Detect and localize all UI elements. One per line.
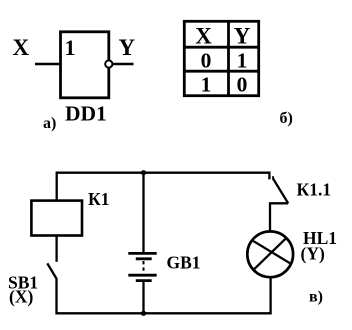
svg-text:X: X bbox=[13, 35, 30, 60]
svg-text:1: 1 bbox=[65, 35, 76, 60]
svg-text:(Y): (Y) bbox=[301, 244, 325, 264]
svg-text:1: 1 bbox=[201, 73, 212, 97]
svg-text:К1.1: К1.1 bbox=[297, 180, 332, 200]
svg-text:0: 0 bbox=[237, 73, 248, 97]
svg-text:1: 1 bbox=[237, 48, 248, 72]
svg-text:0: 0 bbox=[201, 48, 212, 72]
svg-text:б): б) bbox=[280, 110, 293, 127]
svg-text:а): а) bbox=[43, 115, 56, 132]
svg-text:в): в) bbox=[309, 288, 323, 305]
svg-text:Y: Y bbox=[234, 24, 251, 49]
svg-text:Y: Y bbox=[119, 35, 136, 60]
svg-text:DD1: DD1 bbox=[65, 102, 107, 126]
svg-text:(X): (X) bbox=[9, 287, 33, 307]
svg-text:К1: К1 bbox=[88, 189, 109, 209]
svg-text:X: X bbox=[195, 24, 212, 49]
svg-text:GB1: GB1 bbox=[167, 253, 201, 273]
